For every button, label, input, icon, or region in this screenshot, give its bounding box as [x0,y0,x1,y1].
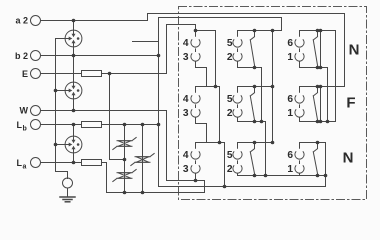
svg-text:a 2: a 2 [15,16,28,26]
svg-text:2: 2 [227,52,233,63]
enclosure dash-dot border [179,7,367,200]
contact group 4-3 row 1 [191,31,216,87]
contact group 6-1 row 2 [295,87,345,122]
svg-text:E: E [22,69,28,79]
svg-text:b: b [23,126,27,133]
terminal b2 [31,51,41,61]
wire suppressor branch B [124,125,126,193]
svg-text:a: a [23,164,27,171]
arrester F3 bottom lead [73,153,75,163]
arrester F3 left lead [56,144,66,146]
ground terminal circle [63,178,73,188]
wire a2 to top rail 1 feeding right block [41,14,345,87]
svg-text:F: F [346,94,355,111]
svg-text:6: 6 [287,38,293,49]
resistor R2 on Lb [82,122,102,128]
svg-text:3: 3 [183,108,189,119]
wire Lb right segment [102,124,159,126]
contact group 6-1 row 1 [295,31,336,122]
svg-text:4: 4 [183,150,189,161]
wire La left segment [41,162,82,164]
surge arrester F3 [65,136,82,153]
svg-text:b 2: b 2 [15,51,28,61]
arrester F2 left lead [56,90,66,92]
arrester F1 left lead [56,38,66,40]
contact group 5-2 row 2 [233,87,273,176]
svg-text:5: 5 [227,94,233,105]
svg-text:W: W [20,106,29,116]
svg-text:4: 4 [183,94,189,105]
arrester F2 top lead [73,56,75,83]
resistor R1 on E [82,71,102,77]
suppressor diode V1 [113,138,136,150]
svg-text:N: N [343,149,354,166]
arrester F3 top lead [73,125,75,137]
contact group 6-1 row 3 [295,143,326,176]
terminal a2 [31,16,41,26]
wire E branch down to suppressor node [110,74,125,160]
svg-text:2: 2 [227,164,233,175]
contact group 4-3 row 2 [191,87,220,143]
svg-text:4: 4 [183,38,189,49]
svg-text:N: N [349,41,360,58]
wire b2 descent vertical to bottom [159,18,326,187]
contact group 5-2 row 1 [233,31,282,143]
wire suppressor branch C [142,125,144,193]
ground symbol [60,188,75,202]
svg-text:1: 1 [287,108,293,119]
terminal La [31,158,41,168]
suppressor diode V2 [131,154,154,166]
wire spur at y41 [133,41,159,43]
svg-text:3: 3 [183,52,189,63]
svg-text:1: 1 [287,164,293,175]
suppressor diode V3 [113,170,136,182]
wire Lb left segment [41,124,82,126]
wire W to bottom left block feed [41,111,205,193]
svg-text:6: 6 [287,94,293,105]
surge arrester F2 [65,82,82,99]
contact group 5-2 row 3 [233,143,326,176]
svg-text:2: 2 [227,108,233,119]
svg-text:1: 1 [287,52,293,63]
svg-text:5: 5 [227,150,233,161]
arrester F1 top lead [73,21,75,31]
terminal E [31,69,41,79]
svg-text:6: 6 [287,150,293,161]
wire top rail 2 on b2 net [159,18,282,31]
surge arrester F1 [65,30,82,47]
wire La to bottom bus [102,163,205,193]
terminal Lb [31,120,41,130]
contact group 4-3 row 3 [191,143,225,187]
terminal W [31,106,41,116]
resistor R3 on La [82,160,102,166]
surge arrester common line to ground [56,39,68,179]
svg-text:5: 5 [227,38,233,49]
arrester F1 bottom lead [73,47,75,56]
wire b2 horizontal [41,55,159,57]
wire E left segment [41,73,82,75]
wire E right segment to ascent and row 1 feed [102,25,196,74]
svg-text:3: 3 [183,164,189,175]
arrester F2 bottom lead [73,99,75,111]
